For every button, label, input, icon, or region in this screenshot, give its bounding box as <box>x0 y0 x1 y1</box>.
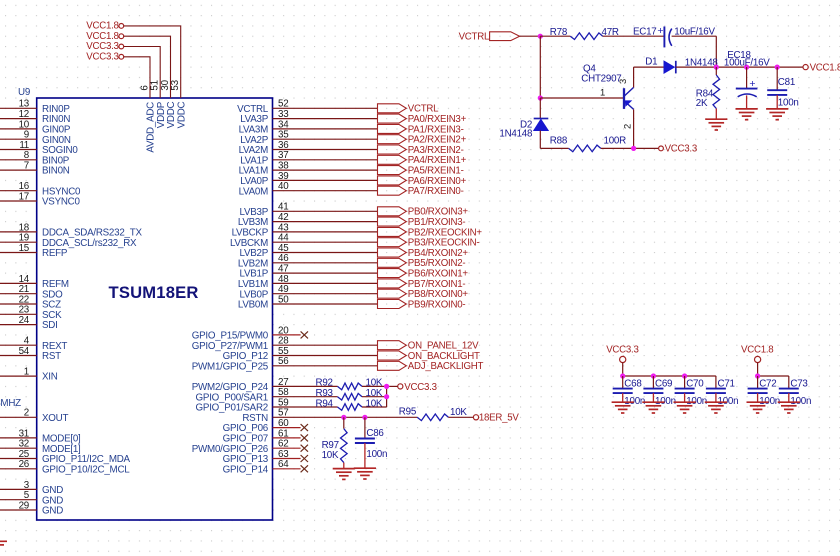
svg-text:+: + <box>749 78 755 90</box>
svg-text:R88: R88 <box>550 135 568 146</box>
wire down to D1 rail <box>715 36 717 67</box>
port flag PB5/RXOIN2- <box>378 258 407 267</box>
wire VCTRL flag to node <box>520 35 541 37</box>
wire RSTN to R97 <box>343 417 345 428</box>
wire pin 42 LVB3M <box>273 221 378 223</box>
wire node to R78 <box>540 35 570 37</box>
wire pin 10 GIN0P <box>0 128 37 130</box>
wire VCC1.8 port to rail <box>757 362 759 376</box>
ground at R84 <box>705 118 727 120</box>
wire emitter corner to D1 <box>634 66 664 68</box>
wire R92-R94 common <box>386 386 388 407</box>
port flag PA4/RXEIN1+ <box>378 155 407 164</box>
svg-text:GND: GND <box>42 506 63 517</box>
svg-text:REFP: REFP <box>42 248 68 259</box>
svg-text:VCC3.3: VCC3.3 <box>404 382 436 393</box>
junction base node <box>538 95 543 100</box>
wire VCC1.8 to top pin <box>124 26 181 98</box>
svg-text:BIN0N: BIN0N <box>42 166 70 177</box>
svg-text:8MHZ: 8MHZ <box>0 398 21 409</box>
power port VCC3.3 at R88 <box>659 146 664 151</box>
junction rail C81 <box>775 65 780 70</box>
wire D2 to R88 row <box>539 131 541 149</box>
wire Q4 collector down <box>633 109 635 148</box>
wire pin 5 GND <box>0 499 37 501</box>
svg-text:54: 54 <box>19 346 30 357</box>
wire R97 to ground <box>343 463 345 469</box>
svg-text:ADJ_BACKLIGHT: ADJ_BACKLIGHT <box>408 361 484 372</box>
svg-text:PB9/RXOIN0-: PB9/RXOIN0- <box>408 299 466 310</box>
port flag PB6/RXOIN1+ <box>378 269 407 278</box>
port flag PB1/RXOIN3- <box>378 217 407 226</box>
wire pin 29 GND <box>0 509 37 511</box>
port flag VCTRL <box>378 104 407 113</box>
wire pin 40 LVA0M <box>273 190 378 192</box>
wire C73 to ground <box>788 393 790 402</box>
svg-text:100n: 100n <box>366 449 387 460</box>
wire pin 54 RST <box>0 355 37 357</box>
wire VCTRL node down to base node <box>539 36 541 98</box>
wire pin 21 SDO <box>0 293 37 295</box>
wire pin 7 BIN0N <box>0 169 37 171</box>
svg-text:100n: 100n <box>778 98 799 109</box>
resistor R92 <box>338 383 363 390</box>
wire rail to C69 <box>652 376 654 388</box>
svg-text:2: 2 <box>621 124 632 129</box>
wire pin 3 GND <box>0 488 37 490</box>
wire pin 46 LVB2M <box>273 262 378 264</box>
port flag PA2/RXEIN2+ <box>378 135 407 144</box>
wire C68 to ground <box>622 393 624 402</box>
wire VCC1.8 rail <box>758 375 789 377</box>
wire VCC3.3 rail <box>623 375 716 377</box>
junction C69 rail <box>651 373 656 378</box>
no-ERC mark pin 60 <box>301 424 308 431</box>
ground at C69 <box>642 401 664 403</box>
transistor Q4 CHT2907 <box>623 88 625 109</box>
wire pin 33 LVA3P <box>273 118 378 120</box>
svg-text:R95: R95 <box>399 406 417 417</box>
wire pin 12 RIN0N <box>0 118 37 120</box>
wire pin 50 LVB0M <box>273 303 378 305</box>
diode D1 1N4148 <box>664 61 674 73</box>
capacitor C72 <box>748 388 768 390</box>
port flag VCTRL input <box>490 32 520 41</box>
wire C69 to ground <box>652 393 654 402</box>
port flag PA0/RXEIN3+ <box>378 114 407 123</box>
wire pin 32 MODE[1] <box>0 447 37 449</box>
wire pin 19 DDCA_SCL/rs232_RX <box>0 241 37 243</box>
wire R88 to VCC3.3 <box>601 147 659 149</box>
port flag ON_PANEL_12V <box>378 341 407 350</box>
svg-text:15: 15 <box>19 243 30 254</box>
port flag PA1/RXEIN3- <box>378 124 407 133</box>
power port VCC1.8 right <box>803 65 808 70</box>
wire pin 35 LVA2P <box>273 138 378 140</box>
svg-text:3: 3 <box>617 79 628 84</box>
wire rail to C68 <box>622 376 624 388</box>
port flag PB4/RXOIN2+ <box>378 248 407 257</box>
svg-text:CHT2907: CHT2907 <box>581 74 621 85</box>
svg-text:VCC1.8: VCC1.8 <box>810 63 840 74</box>
wire VCC3.3 to top pin <box>124 57 150 98</box>
wire pin 44 LVBCKM <box>273 241 378 243</box>
wire VCC3.3 to top pin <box>124 47 161 99</box>
svg-text:18ER_5V: 18ER_5V <box>479 413 520 424</box>
svg-text:C70: C70 <box>686 378 704 389</box>
wire R84 to ground <box>715 109 717 120</box>
svg-text:1: 1 <box>600 87 605 98</box>
capacitor C81 <box>767 89 787 91</box>
wire pin 60 GPIO_P06 <box>273 427 301 429</box>
junction rail EC18 <box>744 65 749 70</box>
wire pin 22 SCZ <box>0 303 37 305</box>
wire pin 2 XOUT <box>0 416 37 418</box>
wire rail to C71 <box>715 376 717 388</box>
svg-text:C81: C81 <box>778 77 795 88</box>
wire pin 63 GPIO_P13 <box>273 458 301 460</box>
svg-text:EC17: EC17 <box>633 27 657 38</box>
wire rail to C81 <box>776 67 778 90</box>
svg-text:40: 40 <box>278 181 289 192</box>
capacitor C68 <box>613 388 633 390</box>
wire pin 38 LVA1M <box>273 169 378 171</box>
svg-text:17: 17 <box>19 191 29 202</box>
wire D1 to VCC1.8 <box>676 66 803 68</box>
wire pin 62 PWM0/GPIO_P26 <box>273 447 301 449</box>
ground at left edge (cut) <box>0 540 7 542</box>
wire rail to C70 <box>684 376 686 388</box>
op-amp U9 TSUM18ER IC body <box>37 98 273 520</box>
resistor R88 <box>569 145 601 152</box>
wire pin 18 DDCA_SDA/RS232_TX <box>0 231 37 233</box>
wire R93 to bus <box>362 396 387 398</box>
wire pin 25 GPIO_P11/I2C_MDA <box>0 458 37 460</box>
ground at C86 <box>354 467 376 469</box>
wire pin 13 RIN0P <box>0 107 37 109</box>
svg-text:29: 29 <box>19 500 29 511</box>
junction C72 rail <box>755 373 760 378</box>
wire C70 to ground <box>684 393 686 402</box>
svg-text:26: 26 <box>19 459 30 470</box>
svg-text:D1: D1 <box>645 56 657 67</box>
capacitor C69 <box>643 388 663 390</box>
port flag PB8/RXOIN0+ <box>378 289 407 298</box>
junction RSTN-R97 <box>341 415 346 420</box>
wire rail to C73 <box>788 376 790 388</box>
ground at EC18 <box>736 108 758 110</box>
wire pin 27 PWM2/GPIO_P24 <box>273 385 338 387</box>
no-ERC mark pin 63 <box>301 455 308 462</box>
svg-text:TSUM18ER: TSUM18ER <box>109 283 199 302</box>
no-ERC mark pin 61 <box>301 434 308 441</box>
junction R92 bus <box>384 384 389 389</box>
svg-text:C72: C72 <box>759 378 776 389</box>
wire base node down to D2 <box>539 98 541 119</box>
capacitor C71 <box>706 388 726 390</box>
svg-text:50: 50 <box>278 294 289 305</box>
svg-text:VDDC: VDDC <box>176 101 187 128</box>
junction RSTN-C86 <box>362 415 367 420</box>
port flag PA3/RXEIN2- <box>378 145 407 154</box>
svg-text:XIN: XIN <box>42 372 58 383</box>
ground at C73 <box>778 401 800 403</box>
wire C81 to ground <box>776 95 778 109</box>
wire pin 17 VSYNC0 <box>0 200 37 202</box>
port flag PB9/RXOIN0- <box>378 300 407 309</box>
svg-text:VCTRL: VCTRL <box>459 32 490 43</box>
wire C72 to ground <box>757 393 759 402</box>
ground at C70 <box>674 401 696 403</box>
wire R92 to bus <box>362 385 387 387</box>
wire R95 to 18ER_5V <box>448 416 473 418</box>
wire rail to R84 <box>715 67 717 75</box>
ground at R97 <box>333 468 355 470</box>
svg-text:53: 53 <box>170 79 181 90</box>
svg-text:LVA0M: LVA0M <box>239 186 269 197</box>
wire Q4 emitter up <box>633 67 635 87</box>
resistor R97 <box>341 429 348 463</box>
wire pin 43 LVBCKP <box>273 231 378 233</box>
junction VCTRL node <box>538 34 543 39</box>
svg-text:XOUT: XOUT <box>42 413 68 424</box>
power port VCC3.3 at R92 <box>398 384 403 389</box>
svg-text:RSTN: RSTN <box>242 413 268 424</box>
wire pin 36 LVA2M <box>273 149 378 151</box>
svg-text:100uF/16V: 100uF/16V <box>724 58 770 69</box>
wire D2 to R88 <box>540 147 568 149</box>
svg-text:GPIO_P14: GPIO_P14 <box>223 464 269 475</box>
svg-text:U9: U9 <box>18 87 30 98</box>
junction D1 rail / EC17 / R84 <box>714 65 719 70</box>
wire pin 8 BIN0P <box>0 159 37 161</box>
svg-text:VCC1.8: VCC1.8 <box>741 344 773 355</box>
wire C71 to ground <box>715 393 717 402</box>
port flag PB3/RXEOCKIN- <box>378 238 407 247</box>
svg-text:R78: R78 <box>550 27 568 38</box>
wire VCC3.3 port to rail <box>622 362 624 376</box>
wire R94 to bus <box>362 406 387 408</box>
svg-text:PA7/RXEIN0-: PA7/RXEIN0- <box>408 186 464 197</box>
capacitor EC17 (polarized) <box>663 27 665 48</box>
wire pin 11 SOGIN0 <box>0 149 37 151</box>
wire pin 1 XIN <box>0 375 37 377</box>
wire pin 52 VCTRL <box>273 107 378 109</box>
wire pin 37 LVA1P <box>273 159 378 161</box>
wire pin 55 GPIO_P12 <box>273 355 378 357</box>
wire pin 45 LVB2P <box>273 252 378 254</box>
wire pin 39 LVA0P <box>273 179 378 181</box>
svg-text:LVB0M: LVB0M <box>238 300 268 311</box>
wire pin 9 GIN0N <box>0 138 37 140</box>
wire pin 34 LVA3M <box>273 128 378 130</box>
svg-text:100R: 100R <box>604 135 627 146</box>
port flag PB2/RXEOCKIN+ <box>378 227 407 236</box>
svg-text:20: 20 <box>278 325 289 336</box>
resistor R95 <box>417 414 448 421</box>
wire pin 15 REFP <box>0 252 37 254</box>
wire pin 4 REXT <box>0 344 37 346</box>
junction R93 bus <box>384 394 389 399</box>
svg-text:VCC3.3: VCC3.3 <box>86 51 118 62</box>
svg-text:10K: 10K <box>450 407 467 418</box>
wire pin 61 GPIO_P07 <box>273 437 301 439</box>
wire pin 41 LVB3P <box>273 210 378 212</box>
diode D2 1N4148 <box>534 118 549 120</box>
wire pin 14 REFM <box>0 282 37 284</box>
wire EC18 to ground <box>746 95 748 108</box>
svg-text:1N4148: 1N4148 <box>499 129 533 140</box>
port flag PB0/RXOIN3+ <box>378 207 407 216</box>
no-ERC mark pin 62 <box>301 445 308 452</box>
capacitor C86 <box>355 438 375 440</box>
svg-text:C73: C73 <box>790 378 808 389</box>
junction C68 rail <box>620 373 625 378</box>
resistor R93 <box>338 393 363 400</box>
svg-text:SDI: SDI <box>42 320 58 331</box>
svg-text:56: 56 <box>278 356 289 367</box>
wire pin 16 HSYNC0 <box>0 190 37 192</box>
svg-text:VCC3.3: VCC3.3 <box>606 344 638 355</box>
port flag PA6/RXEIN0+ <box>378 176 407 185</box>
svg-text:57: 57 <box>278 408 288 419</box>
svg-text:2: 2 <box>24 408 29 419</box>
svg-text:24: 24 <box>19 315 30 326</box>
resistor R78 <box>570 33 602 40</box>
svg-text:+: + <box>657 25 663 37</box>
wire rail to EC18 <box>746 67 748 88</box>
wire rail to C72 <box>757 376 759 388</box>
ground at C72 <box>747 401 769 403</box>
ground at C68 <box>612 401 634 403</box>
svg-text:GPIO_P15/PWM0: GPIO_P15/PWM0 <box>192 331 269 342</box>
svg-text:C68: C68 <box>624 378 642 389</box>
svg-text:10K: 10K <box>322 450 339 461</box>
svg-text:PWM1/GPIO_P25: PWM1/GPIO_P25 <box>192 361 269 372</box>
port flag PB7/RXOIN1- <box>378 279 407 288</box>
port flag PA7/RXEIN0- <box>378 186 407 195</box>
junction C70 rail <box>682 373 687 378</box>
wire R78 to EC17 <box>603 35 665 37</box>
svg-text:7: 7 <box>24 161 29 172</box>
svg-text:RST: RST <box>42 351 61 362</box>
port flag ON_BACKLIGHT <box>378 351 407 360</box>
port flag PA5/RXEIN1- <box>378 166 407 175</box>
svg-text:R94: R94 <box>316 398 334 409</box>
resistor R94 <box>338 404 363 411</box>
wire pin 48 LVB1M <box>273 282 378 284</box>
svg-text:VCC3.3: VCC3.3 <box>665 144 697 155</box>
wire pin 23 SCK <box>0 313 37 315</box>
wire pin 20 GPIO_P15/PWM0 <box>273 334 301 336</box>
capacitor C70 <box>675 388 695 390</box>
svg-text:2K: 2K <box>696 98 708 109</box>
wire pin 58 GPIO_P00/SAR1 <box>273 396 338 398</box>
wire pin 24 SDI <box>0 324 37 326</box>
svg-text:64: 64 <box>278 459 289 470</box>
ground at C71 <box>705 401 727 403</box>
wire pin 28 GPIO_P27/PWM1 <box>273 344 378 346</box>
capacitor C73 <box>779 388 799 390</box>
wire pin 64 GPIO_P14 <box>273 468 301 470</box>
wire pin 57 RSTN <box>273 416 418 418</box>
wire pin 49 LVB0P <box>273 293 378 295</box>
resistor R84 <box>713 75 720 109</box>
svg-text:C71: C71 <box>718 378 735 389</box>
svg-text:GPIO_P10/I2C_MCL: GPIO_P10/I2C_MCL <box>42 464 130 475</box>
wire pin 56 PWM1/GPIO_P25 <box>273 365 378 367</box>
wire EC17 to corner <box>672 35 717 37</box>
wire pin 47 LVB1P <box>273 272 378 274</box>
svg-text:VSYNC0: VSYNC0 <box>42 197 81 208</box>
svg-text:10K: 10K <box>366 398 383 409</box>
no-ERC mark pin 64 <box>301 465 308 472</box>
wire pin 26 GPIO_P10/I2C_MCL <box>0 468 37 470</box>
port flag ADJ_BACKLIGHT <box>378 361 407 370</box>
wire RSTN to C86 <box>364 417 366 438</box>
power port 18ER_5V <box>473 415 478 420</box>
no-ERC mark pin 20 <box>301 331 308 338</box>
capacitor EC18 (polarized) <box>736 88 758 90</box>
svg-text:1: 1 <box>24 367 29 378</box>
svg-text:C69: C69 <box>655 378 672 389</box>
wire VCC1.8 to top pin <box>124 36 171 98</box>
junction collector R88 <box>631 146 636 151</box>
wire base node to Q4 base <box>540 97 623 99</box>
svg-text:C86: C86 <box>366 428 384 439</box>
wire pin 31 MODE[0] <box>0 437 37 439</box>
ground at C81 <box>766 108 788 110</box>
wire C86 to ground <box>364 443 366 468</box>
wire pin 59 GPIO_P01/SAR2 <box>273 406 338 408</box>
